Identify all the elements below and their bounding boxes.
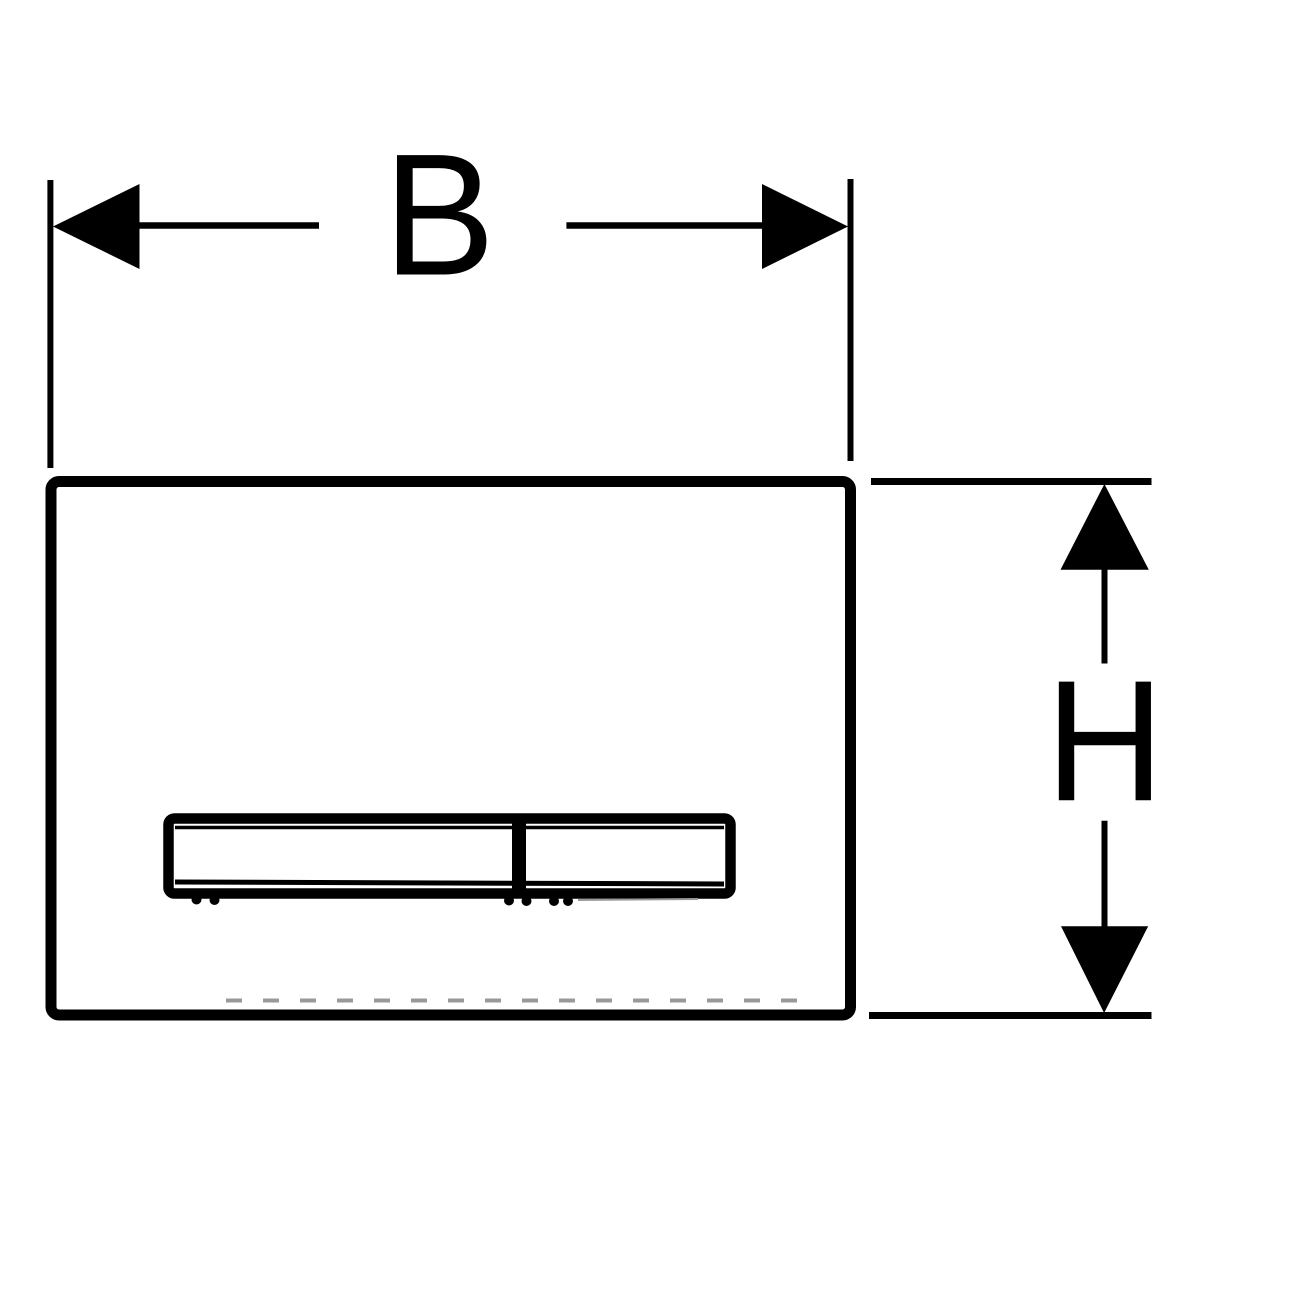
dimension H: bottom arrowhead xyxy=(1061,926,1148,1013)
dimension H: top stem xyxy=(1102,569,1108,664)
button strip outer frame xyxy=(169,819,731,894)
plate bottom faint dashed line xyxy=(226,999,806,1003)
dimension B: right tail line xyxy=(566,222,762,229)
dimension B: left tail line xyxy=(139,222,319,229)
svg-text:H: H xyxy=(1045,644,1164,837)
dimension H: bottom extension line xyxy=(869,1012,1152,1019)
dimension B: label B xyxy=(383,118,495,312)
button strip inner top line xyxy=(175,826,724,830)
dimension H: label H xyxy=(1045,644,1164,837)
button strip divider xyxy=(512,815,526,897)
flush plate outline xyxy=(51,482,851,1016)
dimension B: right extension line xyxy=(848,179,854,461)
button strip left clip bumps xyxy=(192,895,202,905)
dimension B: left arrowhead xyxy=(53,184,140,269)
dimension H: top extension line xyxy=(871,478,1152,485)
button strip faint under-edge smudge xyxy=(578,899,698,900)
button strip inner bottom line xyxy=(175,882,724,884)
svg-text:B: B xyxy=(383,118,495,312)
dimension B: right arrowhead xyxy=(762,184,848,269)
button strip middle clip bumps xyxy=(504,896,514,906)
dimension H: top arrowhead xyxy=(1061,484,1149,570)
dimension B: left extension line xyxy=(47,180,53,468)
dimension H: bottom stem xyxy=(1102,821,1108,927)
